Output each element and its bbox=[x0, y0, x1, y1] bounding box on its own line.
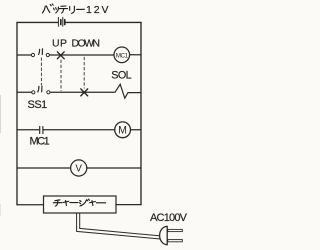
svg-text:SOL: SOL bbox=[111, 70, 131, 82]
label battery 12V (katakana) bbox=[42, 4, 84, 14]
switch terminal circle row2 left bbox=[32, 91, 35, 94]
wire row1 left bbox=[17, 54, 31, 56]
wire row3 left bbox=[17, 129, 40, 131]
switch SS1 actuator strokes bbox=[38, 86, 39, 92]
switch terminal circle row2 right bbox=[47, 91, 50, 94]
contact MC1 bars bbox=[39, 126, 41, 133]
contact X row1 (UP) bbox=[57, 52, 64, 59]
svg-text:M: M bbox=[118, 125, 127, 137]
charger box bbox=[44, 196, 117, 213]
svg-text:MC1: MC1 bbox=[30, 136, 50, 148]
wire row4 right bbox=[87, 167, 141, 169]
svg-text:12V: 12V bbox=[86, 4, 109, 16]
svg-text:UP: UP bbox=[52, 37, 67, 49]
plug prong bottom bbox=[168, 240, 183, 242]
voltmeter V circle bbox=[71, 160, 87, 176]
plug prong top bbox=[168, 229, 183, 231]
wire row4 left bbox=[17, 167, 71, 169]
wire charger right lead bbox=[116, 204, 141, 206]
battery BT (cell plates on top bus) bbox=[58, 17, 64, 26]
dashed link middle bbox=[60, 60, 62, 91]
wire row2 middle bbox=[50, 91, 114, 93]
wire left bus bbox=[16, 22, 18, 204]
svg-text:V: V bbox=[75, 164, 82, 175]
switch terminal circle row1 right bbox=[46, 53, 49, 56]
wire row3 middle bbox=[43, 129, 115, 131]
wire top bus bbox=[17, 21, 141, 23]
svg-text:MC1: MC1 bbox=[116, 52, 129, 59]
dashed link left bbox=[40, 58, 42, 85]
wire row1 middle bbox=[50, 54, 115, 56]
svg-text:SS1: SS1 bbox=[28, 99, 48, 111]
solenoid SOL zigzag bbox=[115, 84, 141, 98]
dashed link right bbox=[83, 57, 85, 88]
plug body bbox=[160, 226, 168, 244]
cable twin-lead from charger bbox=[77, 213, 161, 239]
switch actuator strokes row1 bbox=[39, 49, 40, 54]
switch terminal circle row1 left bbox=[31, 53, 34, 56]
svg-text:DOWN: DOWN bbox=[72, 37, 101, 49]
label charger (katakana) bbox=[53, 199, 105, 206]
wire row2 left bbox=[17, 91, 32, 93]
wire right bus bbox=[140, 22, 142, 204]
scan smudge left edge bbox=[0, 95, 2, 133]
wire row1 right bbox=[130, 54, 141, 56]
svg-text:AC100V: AC100V bbox=[150, 212, 188, 224]
coil MC1 circle bbox=[114, 47, 130, 63]
contact X row2 (DOWN) bbox=[81, 89, 88, 96]
wire charger left lead bbox=[17, 204, 44, 206]
motor M circle bbox=[115, 122, 131, 138]
wire row3 right bbox=[131, 129, 142, 131]
